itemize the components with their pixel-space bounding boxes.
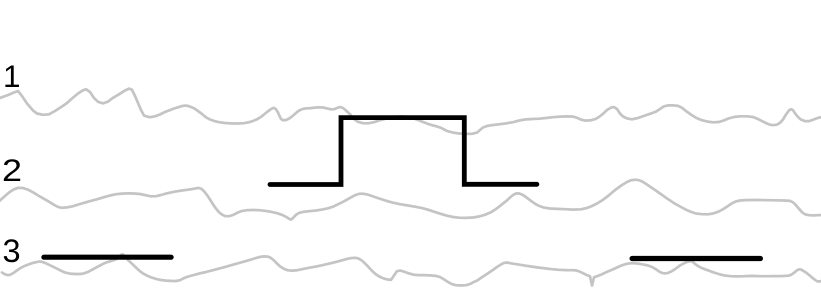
trace 3 left black bar [44, 255, 171, 260]
svg-text:1: 1 [3, 58, 21, 94]
signal trace 1 (hand-drawn) [0, 89, 821, 134]
trace 3 right black bar [632, 256, 760, 261]
svg-text:3: 3 [3, 233, 21, 269]
signal trace 2 (hand-drawn) [0, 180, 821, 220]
pulse waveform overlay (black) between trace 1 and trace 2 [270, 118, 537, 185]
svg-text:2: 2 [2, 152, 22, 188]
signal trace 3 (hand-drawn) [2, 254, 821, 285]
